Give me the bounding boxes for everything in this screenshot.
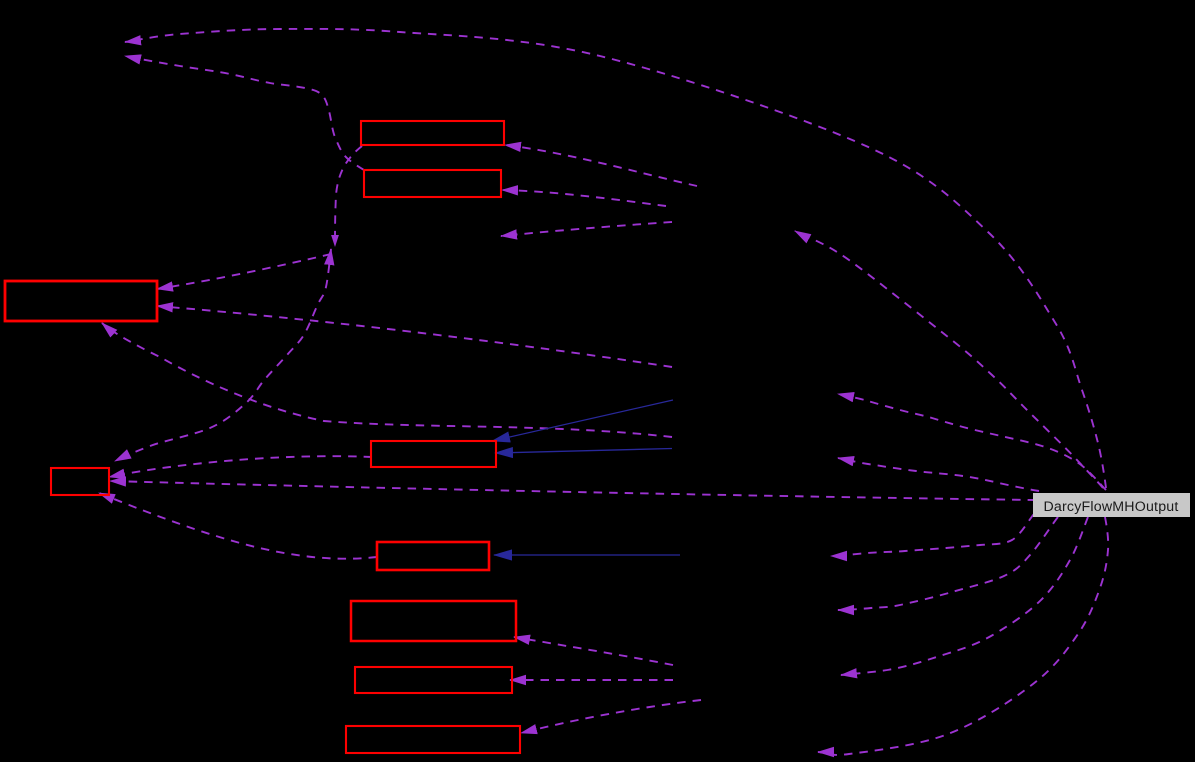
blue inheritance edge to box E right edge bbox=[495, 449, 672, 454]
edge invisible node to invisible node at (502,233) bbox=[501, 222, 672, 236]
fan edge DarcyFlowMHOutput to invisible node (arrow 838,609) bbox=[838, 517, 1058, 610]
edge invisible node to box B right edge bbox=[502, 190, 666, 206]
edge N1 to box C right edge (upper) bbox=[157, 254, 331, 289]
class box B (truncated, red) bbox=[364, 170, 501, 197]
blue inheritance edge to box F right edge bbox=[494, 554, 680, 556]
class box A (truncated, red) bbox=[361, 121, 504, 145]
fan edge DarcyFlowMHOutput to invisible node (arrow 839,394) bbox=[838, 394, 1106, 490]
edge invisible node to box I bbox=[521, 700, 701, 733]
edge DarcyFlowMHOutput to top-left node 1 (big top arc) bbox=[125, 29, 1106, 488]
edge box A down to invisible node N1 (down arrow) bbox=[335, 146, 362, 246]
fan edge DarcyFlowMHOutput to invisible node (arrow 820,752) bbox=[818, 517, 1108, 755]
edge mid invisible node to box C bottom edge (long sagging curve) bbox=[102, 323, 672, 437]
class box C (truncated, red, two-line) bbox=[5, 281, 157, 321]
edge invisible node to box G bbox=[514, 637, 673, 665]
fan edge DarcyFlowMHOutput to invisible node (arrow 831,555) bbox=[831, 514, 1034, 556]
blue inheritance edge to box E top corner bbox=[492, 400, 673, 441]
class box H (truncated, red) bbox=[355, 667, 512, 693]
edge box B to top-left node 2 bbox=[125, 56, 364, 170]
edge DarcyFlowMHOutput to box D (long straight) bbox=[110, 481, 1036, 500]
class box I (truncated, red) bbox=[346, 726, 520, 753]
fan edge DarcyFlowMHOutput to invisible node (arrow 841,675) bbox=[841, 517, 1088, 675]
fan edge DarcyFlowMHOutput to invisible node (arrow 839,458) bbox=[838, 458, 1039, 491]
class box G (truncated, red, two-line) bbox=[351, 601, 516, 641]
class box F (truncated, red) bbox=[377, 542, 489, 570]
svg-text:DarcyFlowMHOutput: DarcyFlowMHOutput bbox=[1043, 499, 1178, 515]
class box E (truncated, red) bbox=[371, 441, 496, 467]
class box D (truncated, red) bbox=[51, 468, 109, 495]
edge from below up to N1 and down to box D (two arrowheads) bbox=[115, 249, 331, 461]
edge DarcyFlowMHOutput to mid invisible node (up arrow 797,231) bbox=[795, 231, 1103, 488]
edge invisible node to box A corner bbox=[505, 145, 697, 186]
edge mid invisible node to box C right edge (lower, long) bbox=[157, 306, 672, 367]
edge box F to box D bottom corner bbox=[99, 493, 377, 559]
edge box E to box D right edge bbox=[109, 456, 372, 477]
main node DarcyFlowMHOutput bbox=[1033, 493, 1190, 517]
edge invisible node to box H bbox=[510, 679, 673, 681]
